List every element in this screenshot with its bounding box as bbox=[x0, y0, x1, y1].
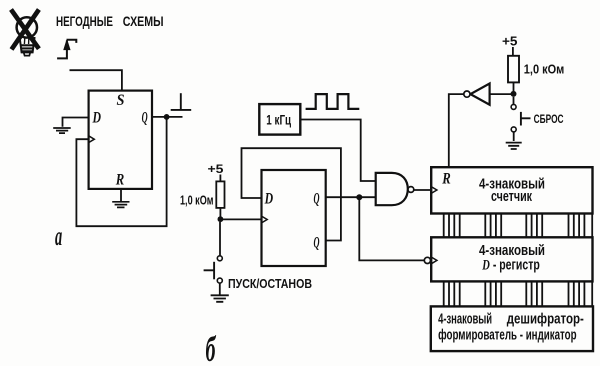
counter U5 box bbox=[431, 167, 592, 213]
node dot Q bbox=[356, 194, 362, 200]
wire NAND to counter clock bbox=[414, 189, 431, 191]
pushbutton S3 СБРОС bbox=[511, 104, 530, 131]
ground (D input) bbox=[53, 128, 70, 133]
svg-text:D - регистр: D - регистр bbox=[482, 257, 540, 274]
feedback wire Q to clock bbox=[76, 117, 166, 226]
svg-text:Q: Q bbox=[142, 109, 148, 126]
wire +5 to R2 bbox=[512, 47, 514, 56]
svg-text:+5: +5 bbox=[208, 164, 225, 176]
U2 clock input chevron bbox=[262, 216, 268, 223]
svg-text:формирователь - индикатор: формирователь - индикатор bbox=[438, 327, 576, 344]
wire node to button bbox=[219, 222, 221, 256]
wire node to inverter input bbox=[490, 93, 514, 95]
svg-text:НЕГОДНЫЕСХЕМЫ: НЕГОДНЫЕСХЕМЫ bbox=[56, 14, 164, 30]
clock waveform symbol bbox=[306, 94, 360, 109]
wire R to ground bbox=[120, 189, 122, 201]
oscillator G1 box 1 kHz bbox=[259, 104, 300, 135]
svg-text:счетчик: счетчик bbox=[491, 188, 532, 205]
svg-text:D: D bbox=[92, 109, 101, 126]
svg-text:4-знаковыйдешифратор-: 4-знаковыйдешифратор- bbox=[438, 311, 584, 328]
wire Q2 feedback to D bbox=[242, 148, 341, 240]
U6 clock chevron bbox=[431, 257, 437, 264]
NAND output bubble bbox=[408, 187, 414, 193]
bus register to decoder bbox=[444, 281, 585, 306]
svg-text:б: б bbox=[206, 329, 217, 366]
svg-text:1,0 кОм: 1,0 кОм bbox=[524, 61, 565, 76]
pushbutton S1 (open) bbox=[171, 93, 192, 110]
svg-text:R: R bbox=[115, 172, 124, 189]
register U6 box bbox=[431, 237, 592, 281]
bad-circuit lamp icon bbox=[11, 10, 39, 56]
wire to S input bbox=[70, 70, 122, 90]
wire button to ground bbox=[219, 283, 221, 295]
svg-text:1,0 кОм: 1,0 кОм bbox=[180, 194, 214, 208]
svg-text:Q: Q bbox=[314, 190, 320, 207]
inverter U4 bbox=[470, 84, 489, 105]
svg-text:D: D bbox=[264, 190, 273, 207]
ground (R input) bbox=[112, 202, 129, 208]
U5 clock chevron bbox=[431, 187, 437, 194]
right edge connector register-decoder bbox=[591, 281, 593, 306]
NAND gate U3 bbox=[376, 173, 408, 205]
flip-flop U2 box bbox=[262, 170, 326, 266]
svg-text:Q: Q bbox=[314, 234, 320, 251]
node dot clock input bbox=[218, 216, 224, 222]
wire inverter to counter R bbox=[449, 94, 464, 167]
svg-text:1 кГц: 1 кГц bbox=[266, 111, 291, 127]
svg-text:S: S bbox=[117, 92, 125, 109]
inverter bubble bbox=[464, 91, 470, 97]
wire G1 to NAND input 1 bbox=[300, 120, 375, 182]
resistor R2 bbox=[508, 56, 519, 83]
right edge connector counter-register bbox=[591, 214, 593, 238]
svg-text:СБРОС: СБРОС bbox=[534, 112, 564, 126]
U6 clock bubble bbox=[424, 257, 430, 263]
node dot at Q bbox=[164, 114, 170, 120]
U1 clock input chevron bbox=[89, 136, 95, 143]
wire node to U2 clock bbox=[223, 218, 262, 220]
wire D to ground bbox=[63, 118, 89, 127]
rising-edge symbol bbox=[57, 40, 76, 59]
svg-text:+5: +5 bbox=[502, 34, 518, 48]
ground (S3) bbox=[506, 143, 522, 149]
decoder U7 box bbox=[431, 306, 593, 351]
node dot reset bbox=[511, 91, 517, 97]
ground (S2) bbox=[211, 295, 229, 302]
svg-text:ПУСК/ОСТАНОВ: ПУСК/ОСТАНОВ bbox=[228, 277, 312, 291]
wire node to button bbox=[513, 97, 515, 105]
wire +5 to R1 bbox=[219, 175, 221, 182]
wire node to register clock bbox=[359, 197, 424, 260]
wire R1 to node bbox=[219, 208, 221, 217]
bus counter to register bbox=[444, 214, 585, 238]
wire Q to NAND input 2 bbox=[326, 196, 376, 198]
flip-flop U1 box bbox=[89, 91, 152, 189]
svg-text:а: а bbox=[55, 221, 62, 251]
wire Q to pushbutton bbox=[152, 116, 183, 118]
wire button to ground bbox=[513, 132, 515, 141]
wire R2 to node bbox=[513, 82, 515, 91]
pushbutton S2 ПУСК/ОСТАНОВ bbox=[204, 256, 223, 283]
resistor R1 bbox=[216, 181, 224, 208]
svg-text:R: R bbox=[441, 171, 451, 188]
